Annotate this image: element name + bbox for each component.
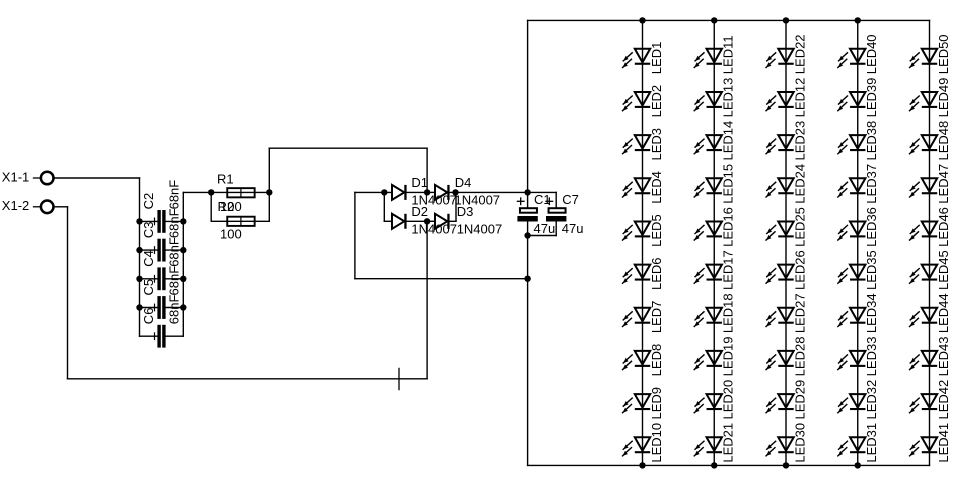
- ground origin tick: [398, 368, 400, 389]
- junction column 3 top: [783, 17, 789, 23]
- svg-text:68nF: 68nF: [167, 295, 182, 325]
- junction C bottom node: [524, 232, 530, 238]
- wire DC- from bridge: [354, 192, 356, 278]
- wire bridge right vertical: [455, 192, 457, 221]
- svg-text:LED4: LED4: [649, 171, 664, 204]
- svg-text:LED33: LED33: [864, 337, 879, 377]
- terminal X1-1: [2, 170, 54, 185]
- wire bridge left vertical: [383, 192, 385, 221]
- wire LED column 4: [857, 20, 859, 465]
- svg-text:D4: D4: [455, 175, 472, 190]
- svg-text:LED8: LED8: [649, 344, 664, 377]
- svg-text:D3: D3: [457, 204, 474, 219]
- junction C4 right: [180, 276, 186, 282]
- svg-text:LED5: LED5: [649, 214, 664, 247]
- svg-text:LED16: LED16: [721, 207, 736, 247]
- svg-text:C2: C2: [141, 193, 156, 210]
- wire array left edge upper: [527, 20, 529, 192]
- LED LED48: [910, 121, 951, 161]
- LED LED6: [623, 257, 664, 290]
- LED LED30: [766, 423, 807, 463]
- svg-text:D2: D2: [411, 204, 428, 219]
- svg-text:R2: R2: [218, 199, 235, 214]
- LED LED38: [838, 121, 879, 161]
- svg-text:LED28: LED28: [792, 337, 807, 377]
- LED LED24: [766, 164, 807, 204]
- svg-text:LED37: LED37: [864, 164, 879, 204]
- svg-text:1N4007: 1N4007: [457, 222, 503, 237]
- LED LED40: [838, 34, 879, 74]
- LED LED2: [623, 85, 664, 118]
- LED LED17: [694, 250, 735, 290]
- LED LED34: [838, 293, 879, 333]
- capacitor C1 47u: [517, 192, 555, 236]
- capacitor C7 47u: [528, 192, 584, 236]
- junction bridge row2 middle (AC2): [424, 218, 430, 224]
- junction column 3 bottom: [783, 462, 789, 468]
- LED LED31: [838, 423, 879, 463]
- svg-text:C4: C4: [141, 250, 156, 267]
- LED LED42: [910, 380, 951, 420]
- svg-text:LED48: LED48: [936, 121, 951, 161]
- svg-text:LED25: LED25: [792, 207, 807, 247]
- svg-text:LED31: LED31: [864, 423, 879, 463]
- svg-text:LED23: LED23: [792, 121, 807, 161]
- wire LED column 2: [713, 20, 715, 465]
- LED LED9: [623, 387, 664, 420]
- svg-text:100: 100: [220, 227, 242, 242]
- junction R right node: [266, 189, 272, 195]
- svg-text:LED39: LED39: [864, 78, 879, 118]
- resistor R1 100: [211, 172, 269, 215]
- LED LED46: [910, 207, 951, 247]
- LED LED12: [766, 78, 807, 118]
- svg-text:LED24: LED24: [792, 164, 807, 204]
- junction column 2 top: [711, 17, 717, 23]
- junction DC- at array edge: [524, 276, 530, 282]
- svg-text:LED30: LED30: [792, 423, 807, 463]
- LED LED1: [623, 42, 664, 75]
- svg-text:LED27: LED27: [792, 293, 807, 333]
- junction C3 right: [180, 247, 186, 253]
- terminal X1-2: [2, 198, 54, 213]
- svg-text:C3: C3: [141, 221, 156, 238]
- svg-text:LED11: LED11: [721, 35, 736, 74]
- LED LED33: [838, 337, 879, 377]
- LED LED29: [766, 380, 807, 420]
- svg-text:C1: C1: [534, 192, 551, 207]
- svg-text:LED42: LED42: [936, 380, 951, 420]
- svg-text:68nF: 68nF: [167, 266, 182, 296]
- diode D2 1N4007: [384, 204, 457, 237]
- svg-text:LED21: LED21: [721, 423, 736, 463]
- resistor R2 100: [211, 192, 269, 241]
- svg-text:LED15: LED15: [721, 164, 736, 204]
- svg-text:LED7: LED7: [649, 301, 664, 334]
- wire array top rail: [528, 19, 930, 21]
- svg-text:C6: C6: [141, 308, 156, 325]
- LED LED23: [766, 121, 807, 161]
- LED LED13: [694, 78, 735, 118]
- LED LED32: [838, 380, 879, 420]
- svg-text:LED14: LED14: [721, 121, 736, 161]
- svg-text:LED12: LED12: [792, 78, 807, 118]
- junction C2 left: [136, 218, 142, 224]
- junction column 4 top: [855, 17, 861, 23]
- svg-text:LED35: LED35: [864, 250, 879, 290]
- svg-text:68nF: 68nF: [167, 180, 182, 210]
- wire cap bank to R node: [183, 191, 211, 193]
- LED LED8: [623, 344, 664, 377]
- LED LED28: [766, 337, 807, 377]
- junction C5 right: [180, 304, 186, 310]
- junction R left node: [208, 189, 214, 195]
- svg-text:LED32: LED32: [864, 380, 879, 420]
- svg-text:LED50: LED50: [936, 34, 951, 74]
- svg-text:LED36: LED36: [864, 207, 879, 247]
- LED LED49: [910, 78, 951, 118]
- LED LED16: [694, 207, 735, 247]
- svg-text:LED17: LED17: [721, 250, 736, 290]
- wire array bottom rail: [528, 464, 930, 466]
- LED LED25: [766, 207, 807, 247]
- svg-text:LED43: LED43: [936, 337, 951, 377]
- svg-text:X1-2: X1-2: [2, 198, 29, 213]
- capacitor C4 68nF: [140, 237, 184, 290]
- svg-text:68nF: 68nF: [167, 208, 182, 238]
- wire X1-1 to capacitor bank: [53, 177, 139, 179]
- wire LED column 3: [785, 20, 787, 465]
- svg-text:47u: 47u: [534, 221, 556, 236]
- LED LED5: [623, 214, 664, 247]
- LED LED43: [910, 337, 951, 377]
- LED LED45: [910, 250, 951, 290]
- svg-text:LED26: LED26: [792, 250, 807, 290]
- svg-text:LED13: LED13: [721, 78, 736, 118]
- LED LED20: [694, 380, 735, 420]
- svg-text:LED18: LED18: [721, 293, 736, 333]
- LED LED11: [694, 35, 735, 74]
- svg-text:LED41: LED41: [936, 423, 951, 463]
- junction C5 left: [136, 304, 142, 310]
- LED LED27: [766, 293, 807, 333]
- LED LED50: [910, 34, 951, 74]
- svg-text:LED49: LED49: [936, 78, 951, 118]
- wire LED column 5: [929, 20, 931, 465]
- LED LED44: [910, 293, 951, 333]
- junction column 1 bottom: [639, 462, 645, 468]
- LED LED14: [694, 121, 735, 161]
- wire capacitor bank right rail: [182, 192, 184, 336]
- LED LED15: [694, 164, 735, 204]
- LED LED19: [694, 337, 735, 377]
- capacitor C5 68nF: [140, 266, 184, 319]
- svg-text:C5: C5: [141, 279, 156, 296]
- LED LED18: [694, 293, 735, 333]
- svg-text:68nF: 68nF: [167, 237, 182, 267]
- svg-text:LED6: LED6: [649, 257, 664, 290]
- LED LED39: [838, 78, 879, 118]
- junction D4 cathode: [452, 189, 458, 195]
- svg-text:LED19: LED19: [721, 337, 736, 377]
- LED LED3: [623, 128, 664, 161]
- LED LED26: [766, 250, 807, 290]
- svg-text:47u: 47u: [562, 221, 584, 236]
- diode D1 1N4007: [392, 175, 457, 208]
- svg-text:LED45: LED45: [936, 250, 951, 290]
- wire LED column 1: [642, 20, 644, 465]
- LED LED47: [910, 164, 951, 204]
- capacitor C2 68nF: [140, 180, 184, 233]
- svg-text:LED9: LED9: [649, 387, 664, 420]
- svg-text:X1-1: X1-1: [2, 170, 29, 185]
- capacitor C6 68nF: [140, 295, 184, 348]
- LED LED10: [623, 423, 664, 463]
- svg-text:LED20: LED20: [721, 380, 736, 420]
- LED LED41: [910, 423, 951, 463]
- svg-text:LED40: LED40: [864, 34, 879, 74]
- wire bridge row1 lead: [355, 191, 392, 193]
- svg-text:LED46: LED46: [936, 207, 951, 247]
- LED LED22: [766, 34, 807, 74]
- junction C2 right: [180, 218, 186, 224]
- svg-text:LED22: LED22: [792, 34, 807, 74]
- svg-text:D1: D1: [411, 175, 428, 190]
- wire AC2 from X1-2: [53, 206, 67, 208]
- svg-text:LED29: LED29: [792, 380, 807, 420]
- junction C4 left: [136, 276, 142, 282]
- diode D3 1N4007: [427, 204, 502, 237]
- LED LED35: [838, 250, 879, 290]
- svg-text:LED34: LED34: [864, 293, 879, 333]
- junction C3 left: [136, 247, 142, 253]
- svg-text:R1: R1: [217, 172, 234, 187]
- LED LED21: [694, 423, 735, 463]
- junction DC+ at C1: [524, 189, 530, 195]
- svg-text:LED38: LED38: [864, 121, 879, 161]
- svg-text:LED47: LED47: [936, 164, 951, 204]
- LED LED36: [838, 207, 879, 247]
- junction column 1 top: [639, 17, 645, 23]
- capacitor C3 68nF: [140, 208, 184, 261]
- wire R to bridge top loop: [268, 148, 270, 192]
- LED LED4: [623, 171, 664, 204]
- wire array left edge lower: [527, 236, 529, 466]
- svg-text:LED10: LED10: [649, 423, 664, 463]
- LED LED7: [623, 301, 664, 334]
- svg-text:LED2: LED2: [649, 85, 664, 118]
- junction bridge left (DC-): [381, 189, 387, 195]
- svg-text:LED1: LED1: [649, 42, 664, 75]
- diode D4 1N4007: [427, 175, 527, 208]
- junction column 4 bottom: [855, 462, 861, 468]
- junction bridge row1 middle (AC1): [424, 189, 430, 195]
- svg-text:LED3: LED3: [649, 128, 664, 161]
- svg-text:LED44: LED44: [936, 293, 951, 333]
- LED LED37: [838, 164, 879, 204]
- junction column 2 bottom: [711, 462, 717, 468]
- wire capacitor bank left rail: [139, 178, 141, 336]
- svg-text:C7: C7: [562, 192, 579, 207]
